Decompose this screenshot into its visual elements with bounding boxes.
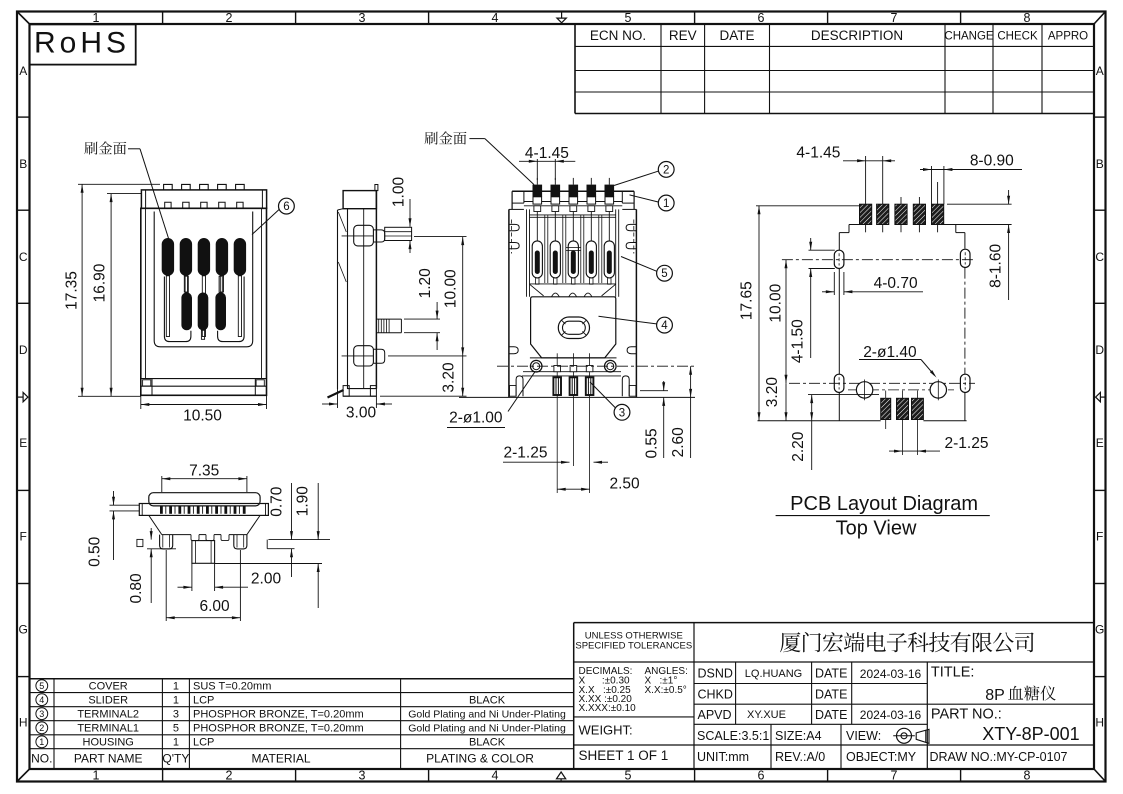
- svg-text:2-1.25: 2-1.25: [504, 445, 548, 462]
- svg-text:C: C: [19, 250, 28, 264]
- svg-text:SLIDER: SLIDER: [88, 695, 128, 707]
- svg-text:4: 4: [39, 695, 44, 705]
- svg-text:5: 5: [625, 11, 632, 25]
- svg-text:17.65: 17.65: [739, 281, 756, 320]
- svg-text:A: A: [1096, 64, 1104, 78]
- svg-text:ECN NO.: ECN NO.: [590, 28, 646, 43]
- svg-text:3: 3: [619, 407, 625, 419]
- svg-text:0.80: 0.80: [128, 573, 145, 604]
- svg-text:2: 2: [226, 769, 233, 783]
- svg-text:3.20: 3.20: [764, 377, 781, 408]
- svg-text:G: G: [1095, 622, 1104, 636]
- svg-text:1: 1: [663, 198, 669, 210]
- svg-text:DATE: DATE: [815, 666, 847, 680]
- svg-text:SPECIFIED TOLERANCES: SPECIFIED TOLERANCES: [575, 641, 692, 652]
- svg-text:8-0.90: 8-0.90: [970, 153, 1014, 170]
- svg-text:5: 5: [39, 681, 44, 691]
- svg-text:8: 8: [1024, 11, 1031, 25]
- svg-text:2: 2: [39, 723, 44, 733]
- svg-text:PHOSPHOR BRONZE, T=0.20mm: PHOSPHOR BRONZE, T=0.20mm: [193, 709, 364, 721]
- svg-text:H: H: [1095, 716, 1104, 730]
- svg-text:REV: REV: [669, 28, 697, 43]
- svg-text:PCB Layout Diagram: PCB Layout Diagram: [790, 493, 978, 515]
- svg-text:DSND: DSND: [698, 666, 733, 680]
- svg-text:A: A: [19, 64, 27, 78]
- svg-text:DRAW NO.:MY-CP-0107: DRAW NO.:MY-CP-0107: [930, 750, 1068, 764]
- svg-text:VIEW:: VIEW:: [846, 729, 881, 743]
- svg-text:1: 1: [173, 737, 179, 749]
- svg-text:DATE: DATE: [815, 708, 847, 722]
- svg-text:8P: 8P: [985, 687, 1005, 704]
- svg-text:Q'TY: Q'TY: [162, 752, 189, 766]
- svg-text:3: 3: [39, 709, 44, 719]
- svg-text:4: 4: [492, 769, 499, 783]
- svg-text:XTY-8P-001: XTY-8P-001: [982, 724, 1079, 744]
- svg-text:0.70: 0.70: [269, 486, 286, 517]
- svg-text:4: 4: [661, 320, 668, 332]
- svg-text:3.00: 3.00: [346, 405, 377, 422]
- svg-text:16.90: 16.90: [92, 263, 109, 302]
- svg-text:17.35: 17.35: [64, 271, 81, 310]
- svg-text:LCP: LCP: [193, 695, 214, 707]
- svg-text:2024-03-16: 2024-03-16: [860, 667, 922, 681]
- svg-text:TERMINAL2: TERMINAL2: [77, 709, 139, 721]
- svg-text:PLATING & COLOR: PLATING & COLOR: [426, 752, 534, 766]
- svg-text:2024-03-16: 2024-03-16: [860, 708, 922, 722]
- svg-text:2-1.25: 2-1.25: [945, 435, 989, 452]
- svg-text:10.00: 10.00: [443, 269, 460, 308]
- svg-text:Top View: Top View: [836, 517, 917, 539]
- svg-text:D: D: [19, 343, 28, 357]
- svg-text:6: 6: [283, 201, 289, 213]
- svg-text:3: 3: [173, 709, 179, 721]
- svg-text:X.X:±0.5°: X.X:±0.5°: [645, 685, 687, 696]
- svg-text:10.00: 10.00: [768, 283, 785, 322]
- svg-text:2.50: 2.50: [610, 476, 641, 493]
- svg-text:SCALE:3.5:1: SCALE:3.5:1: [697, 729, 769, 743]
- svg-text:8: 8: [1024, 769, 1031, 783]
- svg-text:6: 6: [758, 11, 765, 25]
- svg-text:DATE: DATE: [719, 28, 754, 43]
- svg-text:0.50: 0.50: [87, 536, 104, 567]
- svg-text:8-1.60: 8-1.60: [988, 244, 1005, 288]
- svg-text:PART NAME: PART NAME: [74, 752, 143, 766]
- svg-text:4: 4: [492, 11, 499, 25]
- svg-text:5: 5: [625, 769, 632, 783]
- svg-text:APVD: APVD: [698, 708, 732, 722]
- svg-text:4-1.45: 4-1.45: [796, 145, 840, 162]
- svg-text:LQ.HUANG: LQ.HUANG: [745, 668, 802, 680]
- svg-text:COVER: COVER: [89, 681, 128, 693]
- svg-text:SHEET 1 OF 1: SHEET 1 OF 1: [579, 748, 669, 763]
- svg-text:UNIT:mm: UNIT:mm: [697, 750, 749, 764]
- svg-text:G: G: [19, 622, 28, 636]
- svg-text:TERMINAL1: TERMINAL1: [77, 723, 139, 735]
- svg-text:CHANGE: CHANGE: [944, 31, 994, 43]
- svg-text:E: E: [1096, 436, 1104, 450]
- svg-text:TITLE:: TITLE:: [931, 665, 975, 681]
- svg-text:5: 5: [173, 723, 179, 735]
- svg-text:RoHS: RoHS: [34, 27, 130, 60]
- svg-text:NO.: NO.: [31, 752, 52, 766]
- svg-text:REV.:A/0: REV.:A/0: [775, 750, 825, 764]
- svg-text:7.35: 7.35: [189, 463, 219, 480]
- svg-text:BLACK: BLACK: [469, 695, 506, 707]
- svg-text:3.20: 3.20: [441, 362, 458, 393]
- svg-text:B: B: [19, 157, 27, 171]
- svg-text:2-ø1.40: 2-ø1.40: [863, 344, 917, 361]
- svg-text:X.XXX:±0.10: X.XXX:±0.10: [579, 703, 637, 714]
- svg-text:0.55: 0.55: [643, 428, 660, 458]
- svg-text:4-1.45: 4-1.45: [525, 145, 569, 162]
- svg-text:1.90: 1.90: [294, 486, 311, 517]
- svg-text:LCP: LCP: [193, 737, 214, 749]
- svg-text:PART NO.:: PART NO.:: [931, 707, 1002, 723]
- svg-text:1: 1: [173, 681, 179, 693]
- svg-text:Gold Plating and Ni Under-Plat: Gold Plating and Ni Under-Plating: [408, 723, 566, 735]
- svg-text:1: 1: [93, 11, 100, 25]
- svg-text:WEIGHT:: WEIGHT:: [579, 723, 633, 738]
- svg-text:F: F: [20, 529, 27, 543]
- svg-text:SUS T=0.20mm: SUS T=0.20mm: [193, 681, 271, 693]
- svg-text:BLACK: BLACK: [469, 737, 506, 749]
- svg-text:DATE: DATE: [815, 688, 847, 702]
- svg-text:4-1.50: 4-1.50: [790, 319, 807, 363]
- svg-text:2.00: 2.00: [251, 571, 282, 588]
- svg-text:1.20: 1.20: [417, 268, 434, 299]
- svg-text:HOUSING: HOUSING: [83, 737, 134, 749]
- svg-text:7: 7: [891, 769, 898, 783]
- svg-text:E: E: [19, 436, 27, 450]
- svg-text:3: 3: [359, 11, 366, 25]
- svg-text:APPRO: APPRO: [1048, 31, 1088, 43]
- svg-text:1: 1: [173, 695, 179, 707]
- svg-text:CHECK: CHECK: [997, 31, 1038, 43]
- svg-text:XY.XUE: XY.XUE: [747, 709, 786, 721]
- svg-text:2: 2: [663, 164, 669, 176]
- svg-text:6.00: 6.00: [200, 598, 231, 615]
- svg-text:PHOSPHOR BRONZE, T=0.20mm: PHOSPHOR BRONZE, T=0.20mm: [193, 723, 364, 735]
- svg-text:4-0.70: 4-0.70: [874, 275, 918, 292]
- svg-text:2: 2: [226, 11, 233, 25]
- svg-text:10.50: 10.50: [183, 408, 222, 425]
- svg-text:5: 5: [661, 268, 667, 280]
- svg-text:H: H: [19, 716, 28, 730]
- svg-text:DESCRIPTION: DESCRIPTION: [811, 28, 903, 43]
- svg-text:F: F: [1096, 529, 1103, 543]
- svg-text:1.00: 1.00: [391, 177, 408, 208]
- svg-text:B: B: [1096, 157, 1104, 171]
- svg-text:6: 6: [758, 769, 765, 783]
- svg-text:2-ø1.00: 2-ø1.00: [449, 410, 503, 427]
- svg-text:3: 3: [359, 769, 366, 783]
- svg-text:Gold Plating and Ni Under-Plat: Gold Plating and Ni Under-Plating: [408, 708, 566, 720]
- svg-text:OBJECT:MY: OBJECT:MY: [846, 750, 917, 764]
- svg-text:2.60: 2.60: [670, 427, 687, 458]
- svg-text:1: 1: [39, 737, 44, 747]
- svg-text:1: 1: [93, 769, 100, 783]
- svg-text:C: C: [1095, 250, 1104, 264]
- svg-text:2.20: 2.20: [790, 431, 807, 462]
- svg-text:MATERIAL: MATERIAL: [251, 752, 310, 766]
- svg-text:7: 7: [891, 11, 898, 25]
- svg-text:D: D: [1095, 343, 1104, 357]
- svg-text:SIZE:A4: SIZE:A4: [775, 729, 822, 743]
- svg-text:CHKD: CHKD: [698, 688, 733, 702]
